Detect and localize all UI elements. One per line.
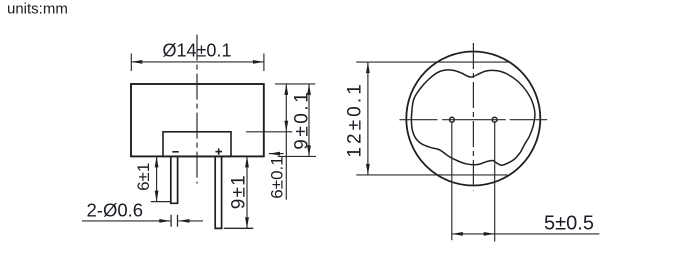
- svg-text:5±0.5: 5±0.5: [544, 213, 594, 235]
- svg-text:Ø14±0.1: Ø14±0.1: [163, 41, 232, 61]
- lead right (long): [215, 156, 221, 228]
- plus polarity label: [215, 148, 222, 154]
- vertical centerline (bottom view): [472, 43, 474, 191]
- svg-text:12±0.1: 12±0.1: [345, 81, 366, 158]
- svg-text:9±1: 9±1: [229, 174, 250, 209]
- extension line top (case top level): [275, 83, 315, 85]
- svg-text:6±0.1: 6±0.1: [268, 156, 287, 198]
- extension line bottom (case bottom level): [278, 155, 316, 157]
- outer circle (bottom view): [406, 52, 540, 186]
- case outline (side view): [131, 84, 264, 156]
- dimension Ø14±0.1: [131, 54, 264, 72]
- base rectangle inside case: [163, 132, 231, 157]
- svg-text:2-Ø0.6: 2-Ø0.6: [87, 200, 144, 221]
- pin left (bottom view): [450, 117, 455, 122]
- dimension 9±1 (long lead): [246, 156, 248, 228]
- pin right (bottom view): [492, 117, 497, 122]
- extension line mid (base top level): [246, 131, 292, 133]
- dimension 9±0.1 (case height): [308, 84, 310, 156]
- svg-text:units:mm: units:mm: [7, 0, 68, 17]
- svg-text:6±1: 6±1: [134, 163, 153, 191]
- potting outline (wavy shape): [411, 70, 535, 165]
- lead left (short): [171, 156, 178, 203]
- svg-text:9±0.1: 9±0.1: [292, 90, 313, 150]
- extension chord bottom (12 dim): [356, 174, 507, 176]
- leader arrow at case bottom right: [269, 153, 284, 155]
- horizontal centerline (bottom view): [400, 119, 548, 121]
- dimension 6±1 (short lead): [156, 156, 158, 201]
- pin extension line left: [451, 122, 453, 240]
- minus polarity label: [172, 151, 179, 153]
- centerline (side view vertical): [196, 35, 198, 184]
- dimension 6±0.1 (case top to base top): [285, 84, 287, 200]
- dimension 12±0.1: [367, 62, 369, 175]
- extension chord top (12 dim): [356, 61, 509, 63]
- pin extension line right: [494, 122, 496, 242]
- dimension 5±0.5 (pin pitch): [452, 233, 495, 235]
